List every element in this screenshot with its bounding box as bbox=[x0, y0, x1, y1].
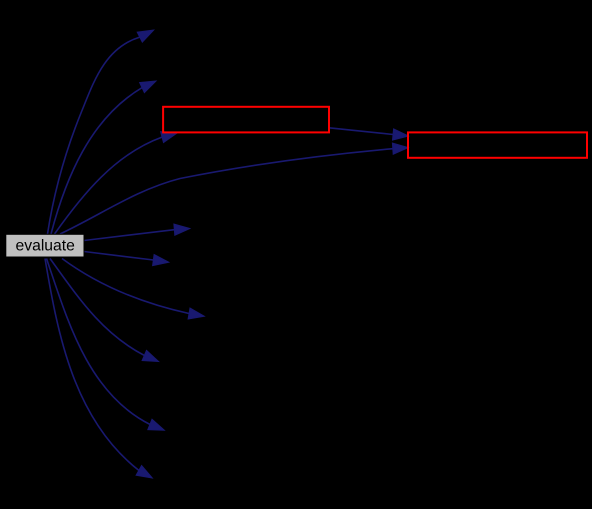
arrowhead edge evaluate->node9 bbox=[148, 419, 165, 430]
arrowhead edge evaluate->box2 bbox=[392, 143, 408, 154]
arrowhead edge evaluate->node5 bbox=[174, 224, 190, 235]
arrowhead edge evaluate->box1 bbox=[161, 132, 177, 143]
arrowhead edge evaluate->node2 bbox=[140, 81, 156, 93]
wire edge evaluate->node10 bbox=[45, 259, 139, 471]
node box2 red truncated bbox=[408, 132, 587, 157]
wire edge evaluate->node6 bbox=[84, 252, 153, 261]
svg-text:evaluate: evaluate bbox=[16, 238, 76, 255]
wire edge evaluate->node5 bbox=[84, 230, 174, 241]
node box1 red truncated bbox=[163, 107, 329, 133]
wire edge evaluate->node7 bbox=[62, 259, 189, 314]
wire edge evaluate->node9 bbox=[47, 259, 150, 425]
arrowhead edge box1->box2 bbox=[393, 129, 409, 140]
wire edge evaluate->node8 bbox=[50, 259, 144, 356]
wire edge evaluate->node2 bbox=[51, 88, 142, 234]
wire edge evaluate->box1 bbox=[55, 137, 163, 234]
arrowhead edge evaluate->node7 bbox=[188, 308, 204, 319]
arrowhead edge evaluate->node8 bbox=[142, 350, 159, 361]
wire edge box1->box2 bbox=[329, 128, 393, 135]
arrowhead edge evaluate->node1 bbox=[137, 30, 153, 42]
wire edge evaluate->node1 bbox=[48, 37, 140, 234]
arrowhead edge evaluate->node10 bbox=[136, 466, 152, 479]
wire edge evaluate->box2 bbox=[60, 149, 393, 234]
arrowhead edge evaluate->node6 bbox=[153, 255, 169, 266]
node evaluate bbox=[6, 234, 84, 257]
